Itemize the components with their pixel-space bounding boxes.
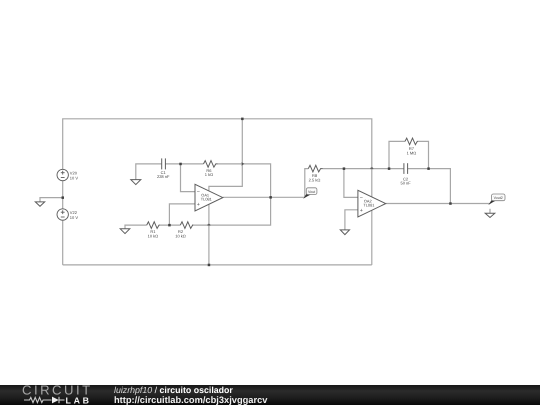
wire OA1 output to Vout flag	[223, 196, 305, 198]
junction OA1 V- on bottom rail	[208, 264, 211, 267]
junction OA1 output	[269, 196, 272, 199]
junction OA2 output	[449, 202, 452, 205]
crossing nub R6 wire	[241, 162, 244, 166]
wire OA2 negative supply pin	[371, 210, 373, 265]
wire R8 right lead	[323, 168, 344, 170]
junction R8-OA2 inverting	[343, 167, 346, 170]
wire R2 to output vertical	[192, 197, 271, 225]
label R2	[175, 229, 186, 239]
svg-text:228 nF: 228 nF	[157, 174, 170, 179]
capacitor C1	[162, 158, 166, 169]
svg-text:+: +	[360, 208, 363, 214]
wire C1 ground stub	[136, 164, 162, 180]
flag Vout2	[488, 194, 505, 205]
resistor R2	[180, 222, 192, 229]
junction R7 left tap	[388, 167, 391, 170]
wire R6 right to output vertical	[218, 164, 271, 197]
label R1	[148, 229, 159, 239]
wire Vout node up to R8	[305, 169, 309, 198]
junction top rail / OA1 V+	[241, 118, 244, 121]
ground (sources midpoint)	[35, 202, 44, 206]
wire OA1 noninverting input	[169, 204, 195, 225]
wire R7 left branch	[389, 141, 405, 168]
svg-text:1 MΩ: 1 MΩ	[407, 151, 417, 156]
resistor R8	[308, 165, 323, 172]
ground (OA2 noninverting)	[340, 230, 349, 235]
svg-text:10 kΩ: 10 kΩ	[148, 233, 159, 238]
ground (C1 left)	[131, 180, 141, 185]
svg-text:LAB: LAB	[66, 395, 92, 405]
label R8	[309, 173, 321, 182]
capacitor C2	[404, 163, 408, 174]
label R6	[205, 168, 213, 177]
svg-text:10 V: 10 V	[70, 215, 79, 220]
label OA2	[363, 198, 374, 207]
wire top rail	[63, 119, 372, 197]
crossing nub OA2 supply	[370, 167, 373, 169]
svg-text:50 nF: 50 nF	[400, 181, 411, 186]
svg-text:1 kΩ: 1 kΩ	[205, 172, 213, 177]
voltage source V22	[57, 209, 68, 220]
svg-text:10 kΩ: 10 kΩ	[175, 233, 186, 238]
wire C2 to output vertical	[408, 169, 451, 204]
svg-text:TL081: TL081	[363, 203, 374, 208]
junction R7 right tap	[427, 167, 430, 170]
wire feedback line to C2	[344, 168, 404, 170]
op-amp OA1	[195, 184, 223, 211]
wire OA2 noninverting input to ground	[345, 210, 358, 230]
svg-text:Vout: Vout	[308, 190, 315, 194]
label V20	[70, 171, 79, 181]
wire ground stub under Vout2	[489, 209, 491, 214]
resistor R6	[204, 161, 218, 168]
wire left vertical between sources	[62, 181, 64, 209]
label OA1	[201, 192, 212, 201]
flag Vout	[303, 188, 317, 199]
label R7	[407, 146, 417, 156]
svg-text:10 V: 10 V	[70, 176, 79, 181]
wire node B to OA2 inverting input	[344, 169, 358, 198]
label C2	[400, 176, 411, 185]
svg-text:TL081: TL081	[201, 197, 212, 202]
wire bottom rail	[63, 264, 372, 266]
svg-text:2.5 kΩ: 2.5 kΩ	[309, 178, 321, 183]
crossing nub OA1 supply lower	[207, 224, 210, 226]
svg-text:−: −	[197, 190, 200, 196]
wire ground to R1	[125, 225, 147, 229]
wire OA1 negative supply pin	[208, 204, 210, 265]
ground (under Vout2 flag)	[485, 213, 495, 217]
wire OA2 output	[386, 203, 490, 205]
label C1	[157, 170, 170, 179]
ground (R1 left)	[120, 229, 130, 234]
junction R1-R2	[168, 224, 171, 227]
resistor R1	[147, 222, 159, 229]
wire R7 right branch	[418, 141, 429, 168]
junction C1-R6 node A	[179, 163, 182, 166]
wire R1 to R2	[159, 224, 181, 226]
resistor R7	[405, 138, 418, 145]
wire OA1 positive supply pin	[209, 119, 242, 191]
op-amp OA2	[358, 190, 386, 217]
wire node A to OA1 inverting input	[181, 164, 196, 192]
svg-text:+: +	[197, 202, 200, 208]
wire C1 to R6	[165, 163, 203, 165]
svg-text:−: −	[360, 195, 363, 201]
voltage source V20	[57, 169, 68, 180]
wire source midpoint to ground	[40, 198, 63, 202]
junction sources midpoint	[62, 196, 65, 199]
svg-text:Vout2: Vout2	[494, 196, 503, 200]
wire left vertical below V22	[62, 220, 64, 265]
label V22	[70, 210, 79, 220]
